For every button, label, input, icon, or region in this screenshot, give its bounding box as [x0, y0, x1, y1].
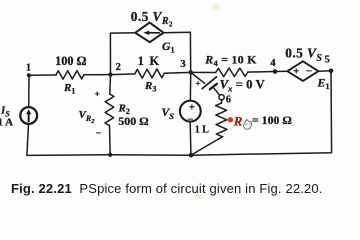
svg-text:+: + — [94, 90, 99, 100]
svg-text:−: − — [187, 114, 193, 125]
svg-text:R1: R1 — [63, 82, 75, 96]
svg-text:R: R — [233, 113, 243, 128]
svg-text:4: 4 — [270, 58, 276, 69]
svg-text:R4 = 10 K: R4 = 10 K — [204, 53, 257, 69]
svg-text:3: 3 — [180, 59, 185, 70]
svg-text:+: + — [293, 67, 299, 78]
svg-text:R3: R3 — [144, 80, 156, 94]
svg-text:−: − — [306, 66, 312, 78]
svg-text:G1: G1 — [162, 39, 175, 55]
svg-text:6: 6 — [226, 95, 231, 106]
svg-text:Vx = 0 V: Vx = 0 V — [220, 77, 266, 93]
svg-text:1 K: 1 K — [138, 54, 161, 68]
svg-text:VR2: VR2 — [79, 109, 96, 125]
svg-text:100 Ω: 100 Ω — [55, 54, 87, 68]
svg-text:500 Ω: 500 Ω — [118, 114, 148, 128]
svg-text:+: + — [189, 102, 195, 113]
svg-text:E1: E1 — [317, 75, 330, 91]
svg-text:VS: VS — [162, 106, 175, 121]
svg-text:1 A: 1 A — [0, 117, 13, 129]
svg-text:+: + — [195, 79, 200, 89]
svg-text:−: − — [96, 129, 101, 139]
svg-text:5: 5 — [325, 54, 330, 65]
svg-text:= 100 Ω: = 100 Ω — [252, 113, 292, 127]
svg-text:1: 1 — [26, 62, 31, 73]
svg-text:1 L: 1 L — [195, 125, 210, 136]
svg-text:2: 2 — [116, 62, 121, 73]
